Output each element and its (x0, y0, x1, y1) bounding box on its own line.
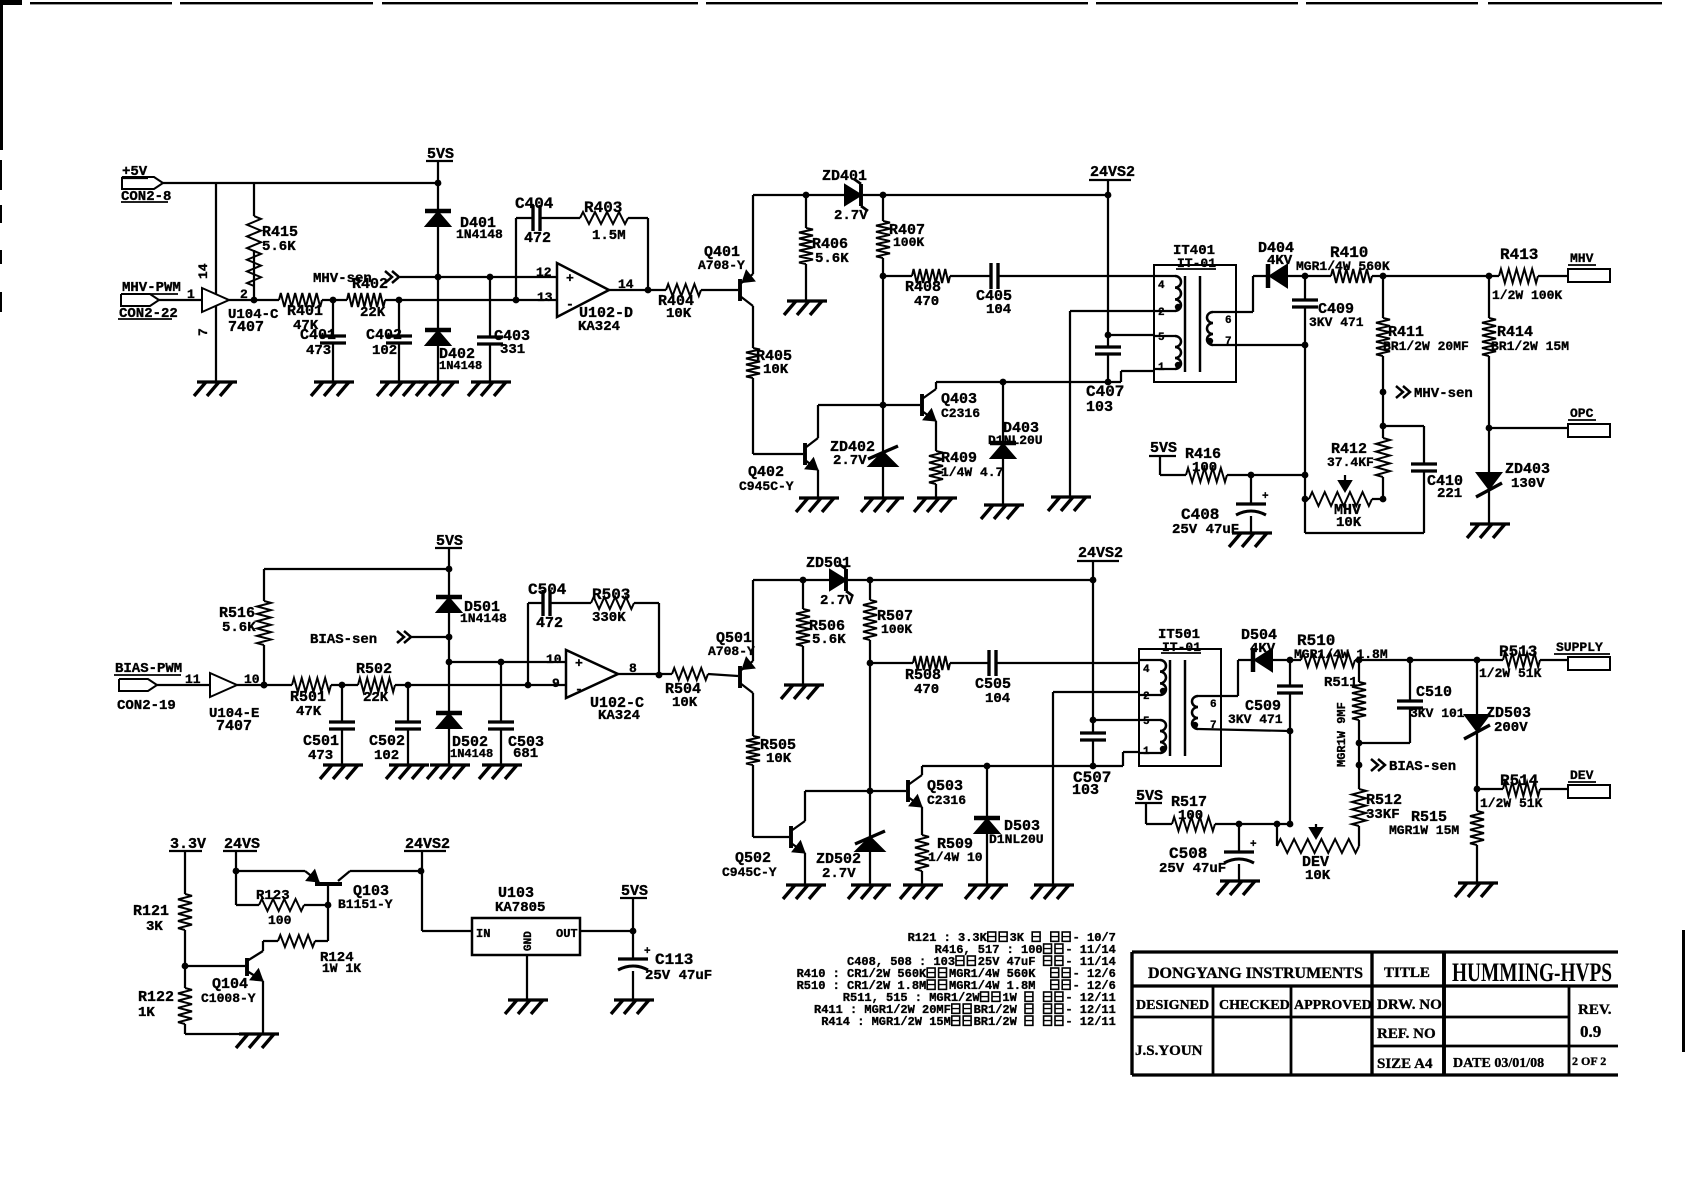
svg-text:104: 104 (986, 302, 1011, 318)
svg-text:1N4148: 1N4148 (439, 359, 482, 373)
svg-text:103: 103 (1072, 782, 1099, 799)
svg-text:C2316: C2316 (941, 406, 980, 421)
svg-text:1: 1 (1143, 746, 1150, 758)
svg-text:KA324: KA324 (598, 708, 640, 724)
svg-text:C404: C404 (515, 195, 554, 213)
svg-text:ZD501: ZD501 (806, 555, 851, 572)
svg-text:HUMMING-HVPS: HUMMING-HVPS (1452, 958, 1612, 987)
svg-text:+: + (575, 656, 583, 671)
svg-text:A708-Y: A708-Y (708, 644, 755, 659)
svg-text:47K: 47K (296, 704, 322, 720)
svg-text:DRW. NO: DRW. NO (1377, 997, 1442, 1013)
svg-text:6: 6 (1225, 315, 1232, 327)
svg-text:-: - (566, 297, 574, 312)
svg-text:102: 102 (374, 748, 399, 764)
svg-text:102: 102 (372, 343, 397, 359)
svg-text:10K: 10K (1336, 515, 1362, 531)
svg-text:3KV 471: 3KV 471 (1228, 712, 1283, 727)
svg-text:470: 470 (914, 294, 939, 310)
svg-text:6: 6 (1210, 699, 1217, 711)
svg-text:MGR1/4W 560K: MGR1/4W 560K (1296, 259, 1390, 274)
svg-text:2: 2 (1143, 691, 1150, 703)
svg-text:KA324: KA324 (578, 319, 620, 335)
svg-text:A708-Y: A708-Y (698, 258, 745, 273)
svg-text:104: 104 (985, 691, 1010, 707)
svg-text:5.6K: 5.6K (812, 632, 846, 648)
svg-text:ZD401: ZD401 (822, 168, 867, 185)
svg-text:OPC: OPC (1570, 406, 1594, 421)
svg-text:SIZE A4: SIZE A4 (1377, 1056, 1433, 1072)
svg-text:33KF: 33KF (1366, 807, 1400, 823)
svg-text:1/2W 51K: 1/2W 51K (1479, 666, 1542, 681)
svg-text:330K: 330K (592, 610, 626, 626)
svg-text:24VS2: 24VS2 (1078, 545, 1123, 562)
svg-text:CON2-19: CON2-19 (117, 698, 176, 714)
svg-text:R413: R413 (1500, 246, 1538, 264)
svg-text:BR1/2W 20MF: BR1/2W 20MF (1383, 339, 1469, 354)
svg-text:221: 221 (1437, 486, 1462, 502)
svg-text:R503: R503 (592, 586, 630, 604)
svg-text:331: 331 (500, 342, 525, 358)
svg-text:22K: 22K (363, 690, 389, 706)
svg-text:+: + (1250, 839, 1257, 851)
svg-text:1/4W 4.7: 1/4W 4.7 (941, 465, 1003, 480)
svg-text:5VS: 5VS (1150, 440, 1177, 457)
svg-text:REV.: REV. (1578, 1002, 1612, 1018)
svg-text:24VS2: 24VS2 (1090, 164, 1135, 181)
svg-text:3KV 471: 3KV 471 (1309, 315, 1364, 330)
svg-text:BIAS-sen: BIAS-sen (1389, 759, 1456, 775)
svg-text:22K: 22K (360, 305, 386, 321)
svg-text:200V: 200V (1494, 720, 1528, 736)
svg-text:C401: C401 (300, 327, 336, 344)
svg-text:APPROVED: APPROVED (1294, 998, 1372, 1013)
svg-text:R122: R122 (138, 989, 174, 1006)
svg-text:100: 100 (1192, 460, 1217, 476)
svg-text:473: 473 (306, 343, 331, 359)
svg-text:1N4148: 1N4148 (456, 227, 503, 242)
svg-text:100K: 100K (893, 235, 924, 250)
svg-text:MHV: MHV (1570, 251, 1594, 266)
svg-text:R513: R513 (1499, 643, 1537, 661)
svg-text:C1008-Y: C1008-Y (201, 991, 256, 1006)
svg-text:100K: 100K (881, 622, 912, 637)
svg-text:C945C-Y: C945C-Y (722, 865, 777, 880)
svg-text:100: 100 (1178, 808, 1203, 824)
svg-text:C504: C504 (528, 581, 567, 599)
svg-text:MHV-sen: MHV-sen (1414, 386, 1473, 402)
svg-text:- 12/11: - 12/11 (1065, 1015, 1115, 1029)
svg-text:C945C-Y: C945C-Y (739, 479, 794, 494)
svg-text:R511: R511 (1324, 675, 1358, 691)
svg-text:1W 1K: 1W 1K (322, 961, 361, 976)
svg-text:BIAS-sen: BIAS-sen (310, 632, 377, 648)
svg-text:472: 472 (536, 615, 563, 632)
svg-text:TITLE: TITLE (1384, 965, 1430, 981)
svg-text:681: 681 (513, 746, 538, 762)
svg-text:IN: IN (476, 927, 490, 941)
svg-text:25V 47uF: 25V 47uF (645, 968, 712, 984)
svg-text:MGR1/4W 1.8M: MGR1/4W 1.8M (1294, 647, 1388, 662)
svg-text:R121: R121 (133, 903, 169, 920)
svg-text:BR1/2W: BR1/2W (974, 1015, 1018, 1029)
svg-text:+: + (566, 271, 574, 286)
svg-text:13: 13 (537, 290, 553, 305)
svg-text:7407: 7407 (216, 718, 252, 735)
svg-text:10: 10 (546, 652, 562, 667)
svg-text:GND: GND (523, 931, 535, 951)
svg-text:7407: 7407 (228, 319, 264, 336)
svg-text:DESIGNED: DESIGNED (1136, 998, 1209, 1013)
svg-text:472: 472 (524, 230, 551, 247)
svg-text:103: 103 (1086, 399, 1113, 416)
svg-text:2: 2 (1158, 307, 1165, 319)
svg-text:2.7V: 2.7V (834, 208, 868, 224)
svg-text:10K: 10K (766, 751, 792, 767)
svg-text:MGR1W 15M: MGR1W 15M (1389, 823, 1459, 838)
svg-text:473: 473 (308, 748, 333, 764)
svg-text:3K: 3K (146, 919, 163, 935)
svg-text:+: + (1262, 491, 1269, 503)
svg-text:7: 7 (1225, 336, 1232, 348)
svg-text:1N4148: 1N4148 (460, 611, 507, 626)
svg-text:DONGYANG INSTRUMENTS: DONGYANG INSTRUMENTS (1148, 965, 1363, 982)
svg-text:D1NL20U: D1NL20U (989, 832, 1044, 847)
svg-text:2.7V: 2.7V (820, 593, 854, 609)
svg-text:10K: 10K (666, 306, 692, 322)
svg-text:C113: C113 (655, 951, 693, 969)
svg-text:7: 7 (196, 328, 211, 336)
svg-text:25V 47uF: 25V 47uF (1159, 861, 1226, 877)
svg-text:1/2W 51K: 1/2W 51K (1480, 796, 1543, 811)
svg-text:1K: 1K (138, 1005, 155, 1021)
svg-text:100: 100 (268, 913, 292, 928)
svg-text:OUT: OUT (556, 927, 578, 941)
svg-text:5: 5 (1158, 332, 1165, 344)
svg-text:5.6K: 5.6K (222, 620, 256, 636)
svg-text:C2316: C2316 (927, 793, 966, 808)
svg-text:0.9: 0.9 (1580, 1022, 1601, 1041)
svg-text:-: - (575, 682, 583, 697)
svg-text:5: 5 (1143, 716, 1150, 728)
svg-text:470: 470 (914, 682, 939, 698)
svg-text:R514: R514 (1500, 772, 1539, 790)
svg-text:1: 1 (1158, 362, 1165, 374)
svg-text:37.4KF: 37.4KF (1327, 455, 1374, 470)
svg-text:R403: R403 (584, 199, 622, 217)
svg-text:1/2W 100K: 1/2W 100K (1492, 288, 1562, 303)
svg-text:BR1/2W 15M: BR1/2W 15M (1491, 339, 1569, 354)
svg-text:C510: C510 (1416, 684, 1452, 701)
svg-text:14: 14 (196, 263, 211, 279)
svg-text:D1NL20U: D1NL20U (988, 433, 1043, 448)
svg-text:+: + (644, 946, 651, 958)
svg-text:10K: 10K (763, 362, 789, 378)
svg-text:3KV 101: 3KV 101 (1410, 706, 1465, 721)
svg-text:C402: C402 (366, 327, 402, 344)
svg-text:SUPPLY: SUPPLY (1556, 640, 1603, 655)
svg-text:B1151-Y: B1151-Y (338, 897, 393, 912)
svg-text:4: 4 (1158, 280, 1165, 292)
svg-text:2.7V: 2.7V (833, 453, 867, 469)
svg-text:DATE 03/01/08: DATE 03/01/08 (1453, 1056, 1544, 1071)
svg-text:R414 : MGR1/2W 15M: R414 : MGR1/2W 15M (821, 1015, 951, 1029)
svg-text:4KV: 4KV (1267, 253, 1293, 269)
svg-text:MHV-sen: MHV-sen (313, 271, 372, 287)
svg-text:R502: R502 (356, 661, 392, 678)
svg-text:MGR1W 9MF: MGR1W 9MF (1335, 702, 1349, 767)
svg-text:2 OF 2: 2 OF 2 (1572, 1054, 1606, 1068)
svg-text:DEV: DEV (1570, 768, 1594, 783)
svg-text:4KV: 4KV (1250, 641, 1276, 657)
svg-text:11: 11 (185, 672, 201, 687)
svg-text:12: 12 (536, 265, 552, 280)
svg-text:25V 47uF: 25V 47uF (1172, 522, 1239, 538)
svg-text:5.6K: 5.6K (815, 251, 849, 267)
svg-text:130V: 130V (1511, 476, 1545, 492)
svg-text:CHECKED: CHECKED (1219, 998, 1290, 1013)
svg-text:R123: R123 (256, 888, 290, 904)
svg-text:J.S.YOUN: J.S.YOUN (1135, 1043, 1203, 1059)
svg-text:1/4W 10: 1/4W 10 (928, 850, 983, 865)
svg-text:2.7V: 2.7V (822, 866, 856, 882)
svg-text:1.5M: 1.5M (592, 228, 626, 244)
svg-text:10K: 10K (672, 695, 698, 711)
svg-text:1: 1 (187, 287, 195, 302)
svg-text:9: 9 (552, 676, 560, 691)
svg-text:5.6K: 5.6K (262, 239, 296, 255)
svg-text:KA7805: KA7805 (495, 900, 545, 916)
svg-text:REF. NO: REF. NO (1377, 1026, 1436, 1042)
svg-text:4: 4 (1143, 664, 1150, 676)
svg-text:10K: 10K (1305, 868, 1331, 884)
svg-text:1N4148: 1N4148 (450, 747, 493, 761)
